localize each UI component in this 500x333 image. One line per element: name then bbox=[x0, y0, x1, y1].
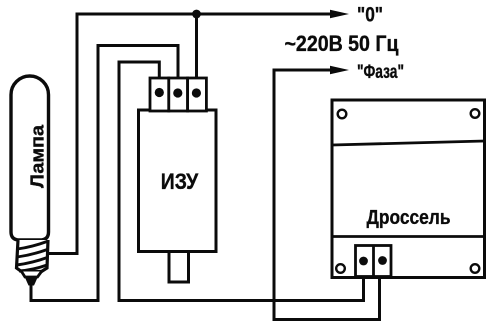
ИЗУ terminal 3 box bbox=[188, 78, 207, 111]
node junction on neutral wire bbox=[192, 10, 201, 19]
lamp thread line 2 bbox=[17, 250, 47, 258]
lamp thread line 4 bbox=[19, 265, 47, 271]
ИЗУ terminal 3 contact dot bbox=[192, 88, 201, 97]
lamp thread line 3 bbox=[17, 258, 48, 266]
svg-text:Дроссель: Дроссель bbox=[367, 207, 451, 229]
lamp LA1 bulb body bbox=[11, 76, 49, 240]
svg-text:"Фаза": "Фаза" bbox=[357, 61, 404, 83]
lamp screw base (threads) bbox=[17, 240, 49, 272]
ballast Дроссель box bbox=[332, 100, 485, 278]
Дроссель terminal left contact dot bbox=[359, 257, 368, 266]
wire lamp center contact to ИЗУ middle terminal bbox=[31, 46, 178, 301]
svg-text:~220В 50 Гц: ~220В 50 Гц bbox=[285, 31, 399, 56]
ИЗУ bottom stub bbox=[169, 252, 189, 283]
ИЗУ terminal 2 contact dot bbox=[173, 88, 182, 97]
Дроссель screw top-left bbox=[338, 110, 347, 119]
ИЗУ terminal 2 box bbox=[169, 78, 188, 111]
svg-text:Лампа: Лампа bbox=[27, 124, 48, 188]
Дроссель inner line top bbox=[332, 141, 485, 145]
wire ИЗУ left terminal to Дроссель left terminal bbox=[119, 62, 364, 301]
lamp insulator cone bbox=[22, 272, 42, 278]
Дроссель screw bottom-left bbox=[336, 264, 345, 273]
Дроссель terminal divider bbox=[372, 246, 375, 277]
ИЗУ terminal 1 box bbox=[150, 78, 169, 111]
Дроссель screw bottom-right bbox=[471, 264, 480, 273]
svg-text:"0": "0" bbox=[357, 3, 383, 27]
arrowhead to "Фаза" terminal bbox=[330, 66, 349, 75]
wire junction to ИЗУ right terminal bbox=[195, 14, 198, 79]
wire neutral bus: lamp shell to top rail and to "0" arrow bbox=[48, 14, 331, 254]
Дроссель terminal block outline bbox=[356, 246, 392, 277]
Дроссель inner line bottom bbox=[332, 235, 485, 238]
ИЗУ terminal 1 contact dot bbox=[155, 88, 164, 97]
svg-text:ИЗУ: ИЗУ bbox=[161, 169, 199, 194]
Дроссель terminal right contact dot bbox=[378, 256, 387, 265]
wire phase: Дроссель right terminal to "Фаза" arrow bbox=[274, 70, 380, 320]
arrowhead to "0" terminal bbox=[330, 10, 349, 19]
lamp center contact (solid) bbox=[25, 277, 39, 286]
lamp thread line 1 bbox=[18, 242, 48, 250]
Дроссель screw top-right bbox=[471, 109, 480, 118]
ignitor U1 ИЗУ box bbox=[139, 110, 217, 252]
